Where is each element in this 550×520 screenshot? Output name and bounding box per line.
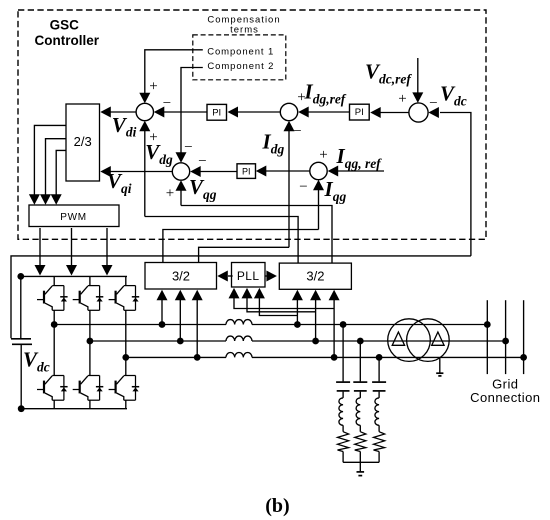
svg-text:+: + — [319, 147, 327, 163]
svg-text:PWM: PWM — [60, 212, 87, 223]
svg-text:Vdc: Vdc — [440, 82, 467, 109]
svg-text:−: − — [163, 96, 171, 112]
svg-text:(b): (b) — [265, 495, 289, 517]
svg-text:Iqg, ref: Iqg, ref — [336, 144, 383, 171]
svg-text:PI: PI — [212, 107, 221, 118]
svg-text:GSC: GSC — [50, 18, 80, 33]
svg-text:−: − — [429, 96, 437, 112]
svg-text:Vdg: Vdg — [145, 140, 173, 167]
svg-text:Vdc,ref: Vdc,ref — [365, 60, 412, 87]
svg-text:PI: PI — [355, 107, 364, 118]
svg-text:Component 2: Component 2 — [207, 61, 274, 72]
svg-text:Iqg: Iqg — [324, 177, 347, 204]
svg-text:Idg: Idg — [262, 130, 285, 157]
svg-text:PI: PI — [242, 166, 251, 176]
svg-text:−: − — [184, 140, 192, 156]
svg-text:Vdc: Vdc — [23, 348, 50, 375]
svg-text:2/3: 2/3 — [74, 134, 92, 149]
svg-text:3/2: 3/2 — [172, 269, 190, 284]
svg-text:Vqg: Vqg — [189, 175, 217, 202]
svg-text:3/2: 3/2 — [306, 269, 324, 284]
svg-text:Compensation: Compensation — [207, 14, 280, 25]
svg-text:−: − — [198, 154, 206, 170]
svg-text:−: − — [293, 124, 301, 140]
svg-text:Connection: Connection — [470, 390, 540, 405]
svg-text:+: + — [149, 79, 157, 95]
svg-text:Vqi: Vqi — [107, 169, 132, 196]
svg-text:Idg,ref: Idg,ref — [304, 80, 347, 107]
svg-text:Controller: Controller — [35, 33, 100, 48]
svg-text:Component 1: Component 1 — [207, 46, 274, 57]
svg-text:−: − — [299, 179, 307, 195]
svg-text:+: + — [166, 186, 174, 202]
svg-text:PLL: PLL — [237, 269, 260, 283]
svg-text:Vdi: Vdi — [112, 113, 137, 140]
svg-text:terms: terms — [230, 25, 259, 36]
svg-text:+: + — [398, 91, 406, 107]
